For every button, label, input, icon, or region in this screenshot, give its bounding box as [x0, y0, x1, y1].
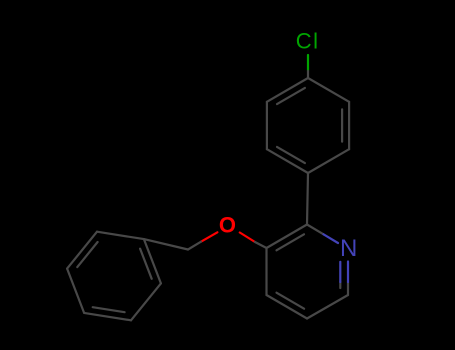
- wire double bond inner UL-T: [277, 88, 305, 104]
- wire bond O to C3 black part: [255, 242, 267, 248]
- chlorophenyl ring C7-C12: [267, 78, 349, 225]
- wire bond O to CH2 black part: [188, 242, 201, 250]
- wire bond O to CH2 red part: [201, 232, 217, 241]
- svg-text:Cl: Cl: [296, 29, 320, 54]
- wire double bond inner N-C6 black part: [339, 282, 341, 288]
- benzyloxy linker: [144, 232, 267, 249]
- wire bond C2 to N black part: [307, 225, 324, 235]
- wire ring edge B-LL: [267, 149, 308, 173]
- wire bond Cl black part: [307, 71, 309, 78]
- wire bond C2 to N blue part: [324, 234, 339, 243]
- wire ring edge C1-TL: [97, 232, 144, 239]
- wire double bond inner TL-L: [77, 242, 97, 267]
- wire ring edge T-UR: [308, 78, 349, 102]
- wire ring edge LL-UL: [266, 102, 268, 149]
- benzyl phenyl ring: [67, 232, 161, 321]
- wire ring edge C6-C5: [307, 295, 348, 319]
- wire bond N-C6 black part: [347, 282, 349, 295]
- wire ring edge L-BL: [67, 269, 84, 313]
- wire ring edge UL-T: [267, 78, 308, 102]
- wire double bond inner C5-C4: [277, 293, 305, 309]
- wire bond O to C3 red part: [240, 233, 255, 243]
- svg-text:N: N: [340, 235, 357, 262]
- wire bond N-C6 blue part: [347, 262, 349, 283]
- wire ring edge BL-B: [84, 313, 131, 320]
- wire bond Cl green part: [307, 55, 309, 71]
- wire ring edge C3-C2: [267, 225, 308, 249]
- wire ring edge C5-C4: [267, 295, 308, 319]
- svg-text:O: O: [219, 213, 236, 238]
- wire double bond inner BL-B: [93, 307, 125, 312]
- wire ring edge B-BR: [131, 283, 161, 320]
- wire ring edge TL-L: [67, 232, 97, 269]
- wire bond ring bottom to pyridine C2: [307, 173, 308, 225]
- wire bond CH2 to phenyl C1: [144, 239, 188, 249]
- wire ring edge BR-C1: [144, 239, 161, 283]
- wire ring edge C4-C3: [265, 248, 267, 295]
- wire double bond inner B-LL: [277, 147, 305, 163]
- wire ring edge LR-B: [308, 149, 349, 173]
- wire ring edge UR-LR: [348, 102, 350, 149]
- wire double bond inner BR-C1: [140, 249, 152, 279]
- wire double bond inner N-C6 blue part: [339, 262, 341, 282]
- chlorine substituent: [307, 55, 309, 78]
- wire double bond inner C3-C2: [277, 234, 305, 250]
- wire double bond inner UR-LR: [341, 109, 343, 141]
- pyridine ring: [267, 225, 349, 319]
